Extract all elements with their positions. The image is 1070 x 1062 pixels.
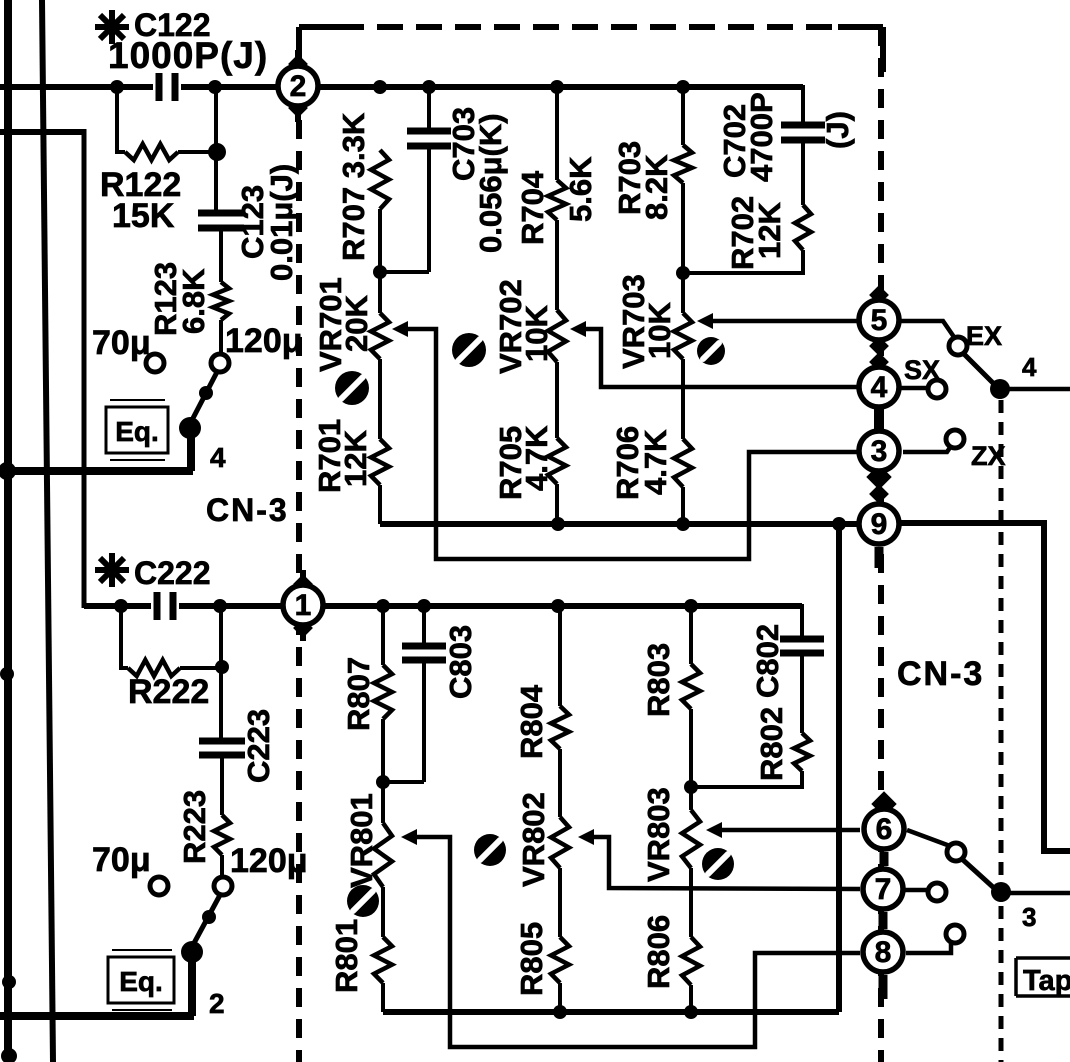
svg-text:0.01μ(J): 0.01μ(J): [264, 164, 299, 281]
svg-text:SX: SX: [904, 355, 940, 385]
svg-text:10K: 10K: [519, 305, 554, 362]
svg-text:EX: EX: [966, 321, 1002, 351]
svg-text:6: 6: [876, 813, 893, 846]
svg-text:6.8K: 6.8K: [176, 268, 211, 334]
svg-text:20K: 20K: [339, 295, 374, 352]
svg-text:1: 1: [295, 589, 312, 622]
svg-text:3: 3: [871, 435, 888, 468]
svg-text:R805: R805: [514, 922, 549, 996]
svg-text:R801: R801: [329, 919, 364, 993]
svg-text:C222: C222: [134, 555, 211, 591]
svg-text:70μ: 70μ: [92, 324, 151, 362]
svg-text:R222: R222: [128, 673, 209, 711]
svg-text:R707 3.3K: R707 3.3K: [336, 112, 371, 261]
svg-text:4.7K: 4.7K: [638, 429, 673, 495]
svg-text:4700P: 4700P: [744, 92, 779, 182]
svg-text:70μ: 70μ: [92, 841, 151, 879]
svg-text:2: 2: [290, 70, 307, 103]
svg-text:3: 3: [1022, 902, 1036, 932]
svg-text:8.2K: 8.2K: [639, 154, 674, 220]
svg-text:7: 7: [875, 873, 892, 906]
svg-text:120μ: 120μ: [230, 842, 308, 880]
svg-text:12K: 12K: [338, 430, 373, 487]
svg-text:CN-3: CN-3: [206, 492, 289, 528]
svg-text:C802: C802: [750, 624, 785, 698]
svg-text:4: 4: [1022, 352, 1037, 382]
svg-text:9: 9: [871, 508, 888, 541]
svg-text:R704: R704: [515, 170, 550, 245]
svg-text:CN-3: CN-3: [897, 655, 984, 693]
svg-text:R223: R223: [177, 790, 212, 864]
svg-text:120μ: 120μ: [225, 322, 303, 360]
svg-text:R806: R806: [641, 915, 676, 989]
svg-text:Eq.: Eq.: [115, 416, 159, 447]
svg-text:4.7K: 4.7K: [519, 425, 554, 491]
svg-text:10K: 10K: [642, 302, 677, 359]
svg-text:12K: 12K: [752, 202, 787, 259]
svg-text:R807: R807: [341, 657, 376, 731]
svg-text:C803: C803: [443, 625, 478, 699]
svg-text:Tap: Tap: [1023, 965, 1070, 997]
svg-text:5: 5: [871, 304, 888, 337]
svg-text:VR801: VR801: [344, 793, 379, 888]
svg-text:4: 4: [210, 442, 226, 473]
svg-text:R802: R802: [754, 707, 789, 781]
svg-text:5.6K: 5.6K: [563, 156, 598, 222]
svg-text:1000P(J): 1000P(J): [108, 35, 268, 76]
svg-text:8: 8: [875, 936, 892, 969]
svg-text:15K: 15K: [112, 197, 175, 235]
svg-text:R803: R803: [641, 643, 676, 717]
svg-text:(J): (J): [820, 111, 855, 149]
svg-text:2: 2: [209, 988, 225, 1019]
svg-text:Eq.: Eq.: [119, 966, 163, 997]
svg-text:0.056μ(K): 0.056μ(K): [473, 113, 508, 253]
svg-text:4: 4: [871, 371, 888, 404]
svg-text:R804: R804: [514, 684, 549, 759]
svg-text:VR802: VR802: [516, 792, 551, 887]
svg-text:VR803: VR803: [641, 787, 676, 882]
svg-text:C223: C223: [241, 709, 276, 783]
